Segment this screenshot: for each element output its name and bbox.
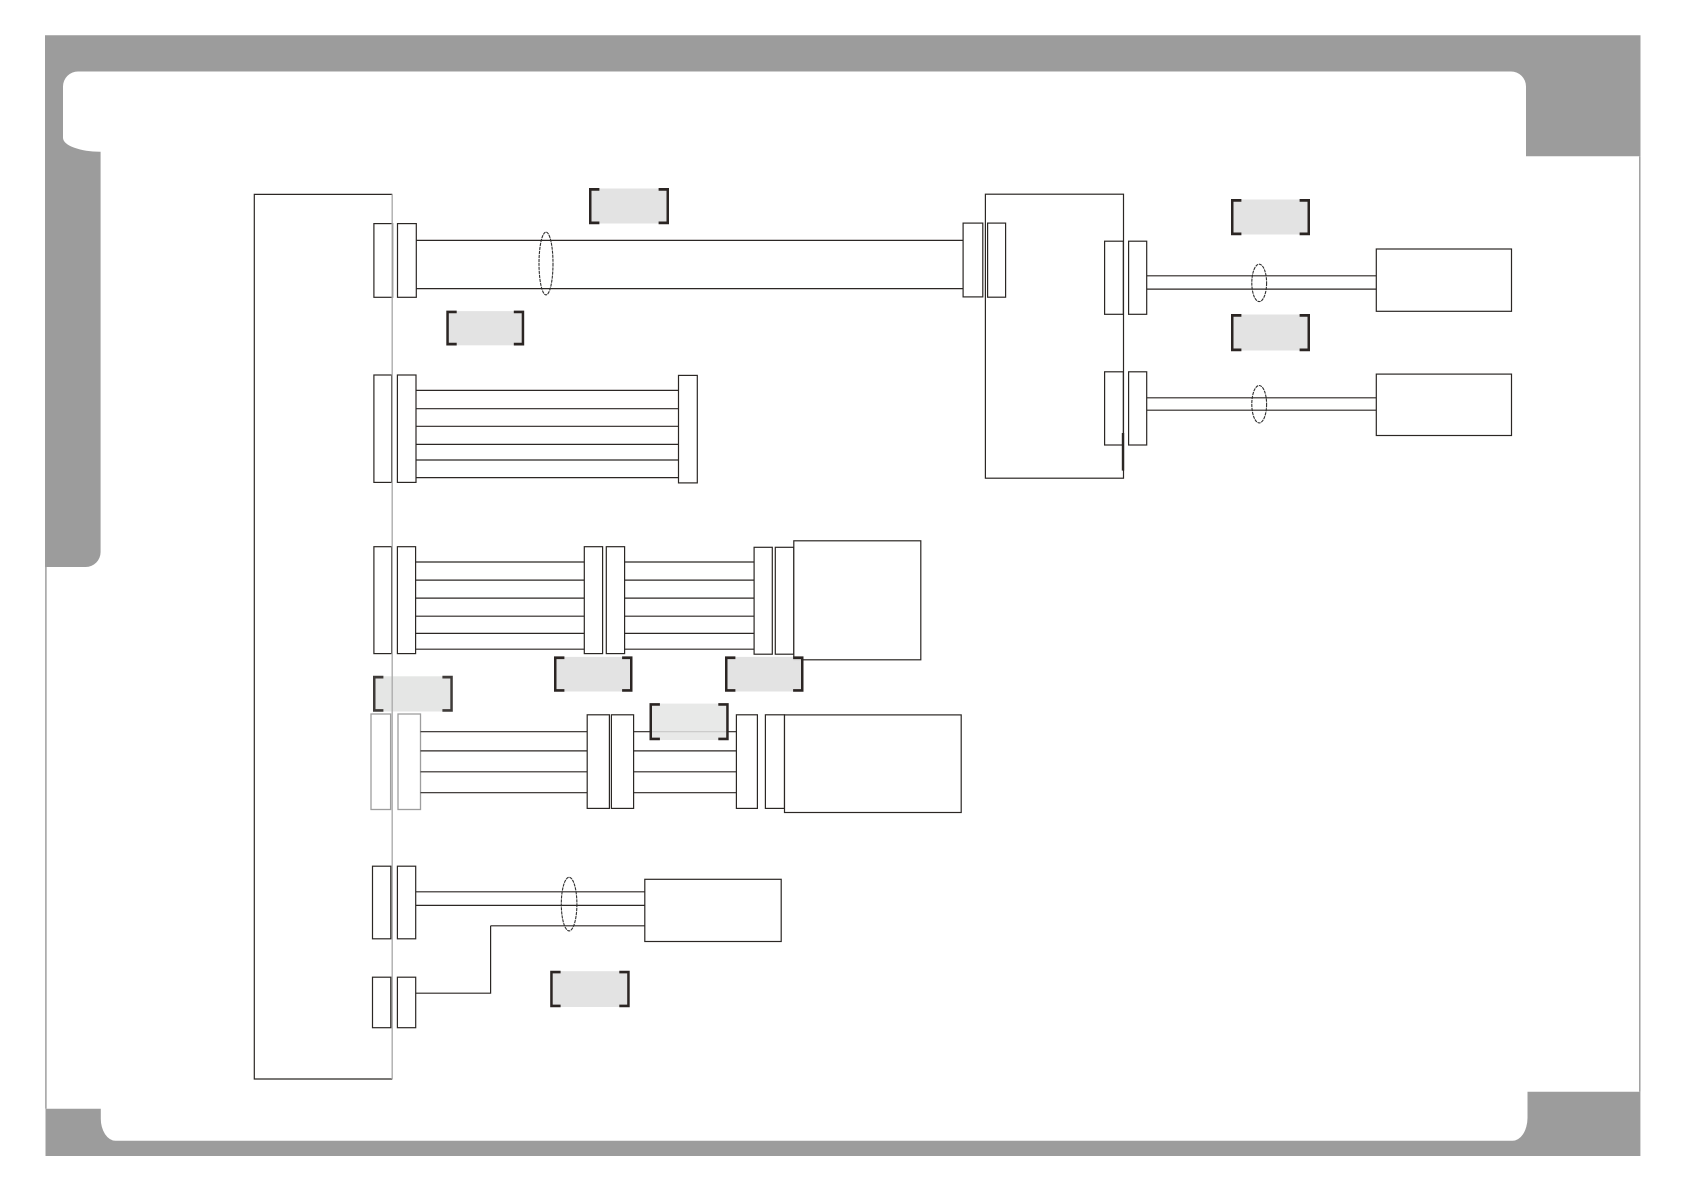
right device box 2 bbox=[1376, 374, 1511, 435]
sub board box bbox=[985, 194, 1123, 478]
inline connector pair CN8 (row 3) bbox=[754, 547, 794, 654]
label plate right upper bbox=[1231, 199, 1310, 235]
page frame bottom bar with corner blocks bbox=[46, 1092, 1641, 1156]
device box row5 bbox=[645, 879, 781, 941]
right thin border line bbox=[1639, 156, 1641, 1091]
wire sub-right lower pair bbox=[1147, 398, 1377, 410]
cable row4 segment B bbox=[634, 732, 737, 793]
connector pair CN6 on main board (row 3) bbox=[374, 547, 416, 654]
ribbon cable row2 bbox=[416, 390, 679, 477]
label plate row1 top bbox=[589, 188, 669, 224]
label plate row4 left bbox=[373, 676, 453, 712]
label plate row1 lower bbox=[446, 311, 524, 346]
connector pair CN2 at sub board left (row 1) bbox=[963, 223, 1006, 297]
device box row3 bbox=[794, 541, 921, 660]
connector pair CN9 on main board (row 4, ghosted) bbox=[371, 714, 421, 810]
cable row4 segment A bbox=[421, 732, 588, 793]
ribbon terminator block row2 bbox=[679, 375, 698, 483]
inline connector pair CN7 (row 3) bbox=[584, 547, 624, 654]
ferrite core upper right cable bbox=[1252, 264, 1267, 301]
label plate row3 right bbox=[725, 656, 804, 691]
label plate right lower bbox=[1231, 314, 1310, 351]
connector pair CN13 on main board (row 5 lower) bbox=[373, 977, 416, 1027]
wire sub-right upper pair bbox=[1147, 276, 1377, 289]
connector pair CN5 on main board (row 2) bbox=[374, 375, 416, 482]
ribbon cable row3 segment A bbox=[416, 562, 585, 649]
connector pair CN3 sub board right upper bbox=[1105, 241, 1147, 314]
wires row5 bbox=[416, 892, 645, 926]
connector pair CN12 on main board (row 5 upper) bbox=[373, 866, 416, 939]
ribbon cable row3 segment B bbox=[625, 562, 755, 649]
label plate row5 bbox=[550, 971, 630, 1008]
ferrite core on row1 cable bbox=[539, 232, 553, 295]
page frame top band with left tab and right block bbox=[45, 35, 1641, 567]
inline connector pair CN10 (row 4) bbox=[587, 715, 633, 809]
label plate row4 middle bbox=[650, 703, 729, 740]
connector pair CN1 on main board (row 1) bbox=[374, 224, 416, 298]
left thin border line bbox=[45, 567, 47, 1109]
ferrite core row5 cable bbox=[561, 877, 577, 931]
main board box bbox=[254, 194, 392, 1079]
connector pair CN4 sub board right lower bbox=[1105, 372, 1147, 445]
junction tick on sub board edge bbox=[1122, 433, 1124, 471]
main board right edge guide line bbox=[391, 194, 393, 1079]
device box row4 bbox=[785, 715, 962, 813]
wire row1 upper bbox=[416, 239, 963, 241]
bent wire from CN13 to device row5 bbox=[416, 926, 491, 993]
inline connector pair CN11 (row 4) bbox=[736, 715, 784, 809]
label plate row3 left bbox=[554, 656, 633, 691]
ferrite core lower right cable bbox=[1252, 386, 1267, 423]
wire row1 lower bbox=[416, 288, 963, 290]
right device box 1 bbox=[1376, 249, 1511, 311]
